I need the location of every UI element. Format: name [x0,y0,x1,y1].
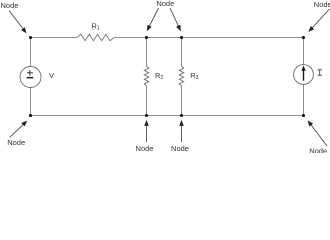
wire R2 branch [146,38,148,116]
arrow to node top-left [9,11,24,30]
node junction dot bottom-right [302,114,305,117]
voltage source V (circle) [20,67,41,88]
node junction dot top-right [302,36,305,39]
resistor R3 [179,66,183,86]
current source I (circle) [294,65,314,85]
voltage source plus-minus symbol [27,70,34,78]
wire top horizontal [31,37,304,39]
arrow to node bottom-left [10,124,24,137]
svg-text:R2: R2 [155,71,163,81]
wire left branch [30,38,32,116]
svg-text:Node: Node [156,0,174,8]
node junction dot top R3 [180,36,183,39]
current source arrow [303,70,305,81]
arrow to node top R2 [149,8,158,27]
node junction dot top-left [29,36,32,39]
svg-text:R3: R3 [190,71,198,81]
svg-text:Node: Node [7,138,25,147]
wire right branch [303,38,305,116]
node junction dot bottom-left [29,114,32,117]
label I [318,70,323,75]
node junction dot bottom R3 [180,114,183,117]
arrow to node bottom R2 [146,125,148,142]
node junction dot bottom R2 [145,114,148,117]
arrow to node top R3 [170,8,179,27]
svg-text:Node: Node [171,144,189,153]
svg-text:Node: Node [136,144,154,153]
wire R3 branch [181,38,183,116]
svg-text:Node: Node [309,146,327,153]
arrow to node bottom-right [311,124,327,146]
arrow to node bottom R3 [181,125,183,142]
node junction dot top R2 [145,36,148,39]
svg-text:Node: Node [1,1,19,10]
resistor R2 [144,66,148,86]
svg-text:R1: R1 [92,22,100,32]
svg-text:Node: Node [314,0,330,9]
resistor R1 [77,34,114,40]
arrow to node top-right [312,9,330,28]
wire bottom horizontal [31,115,304,117]
svg-text:V: V [49,71,55,80]
